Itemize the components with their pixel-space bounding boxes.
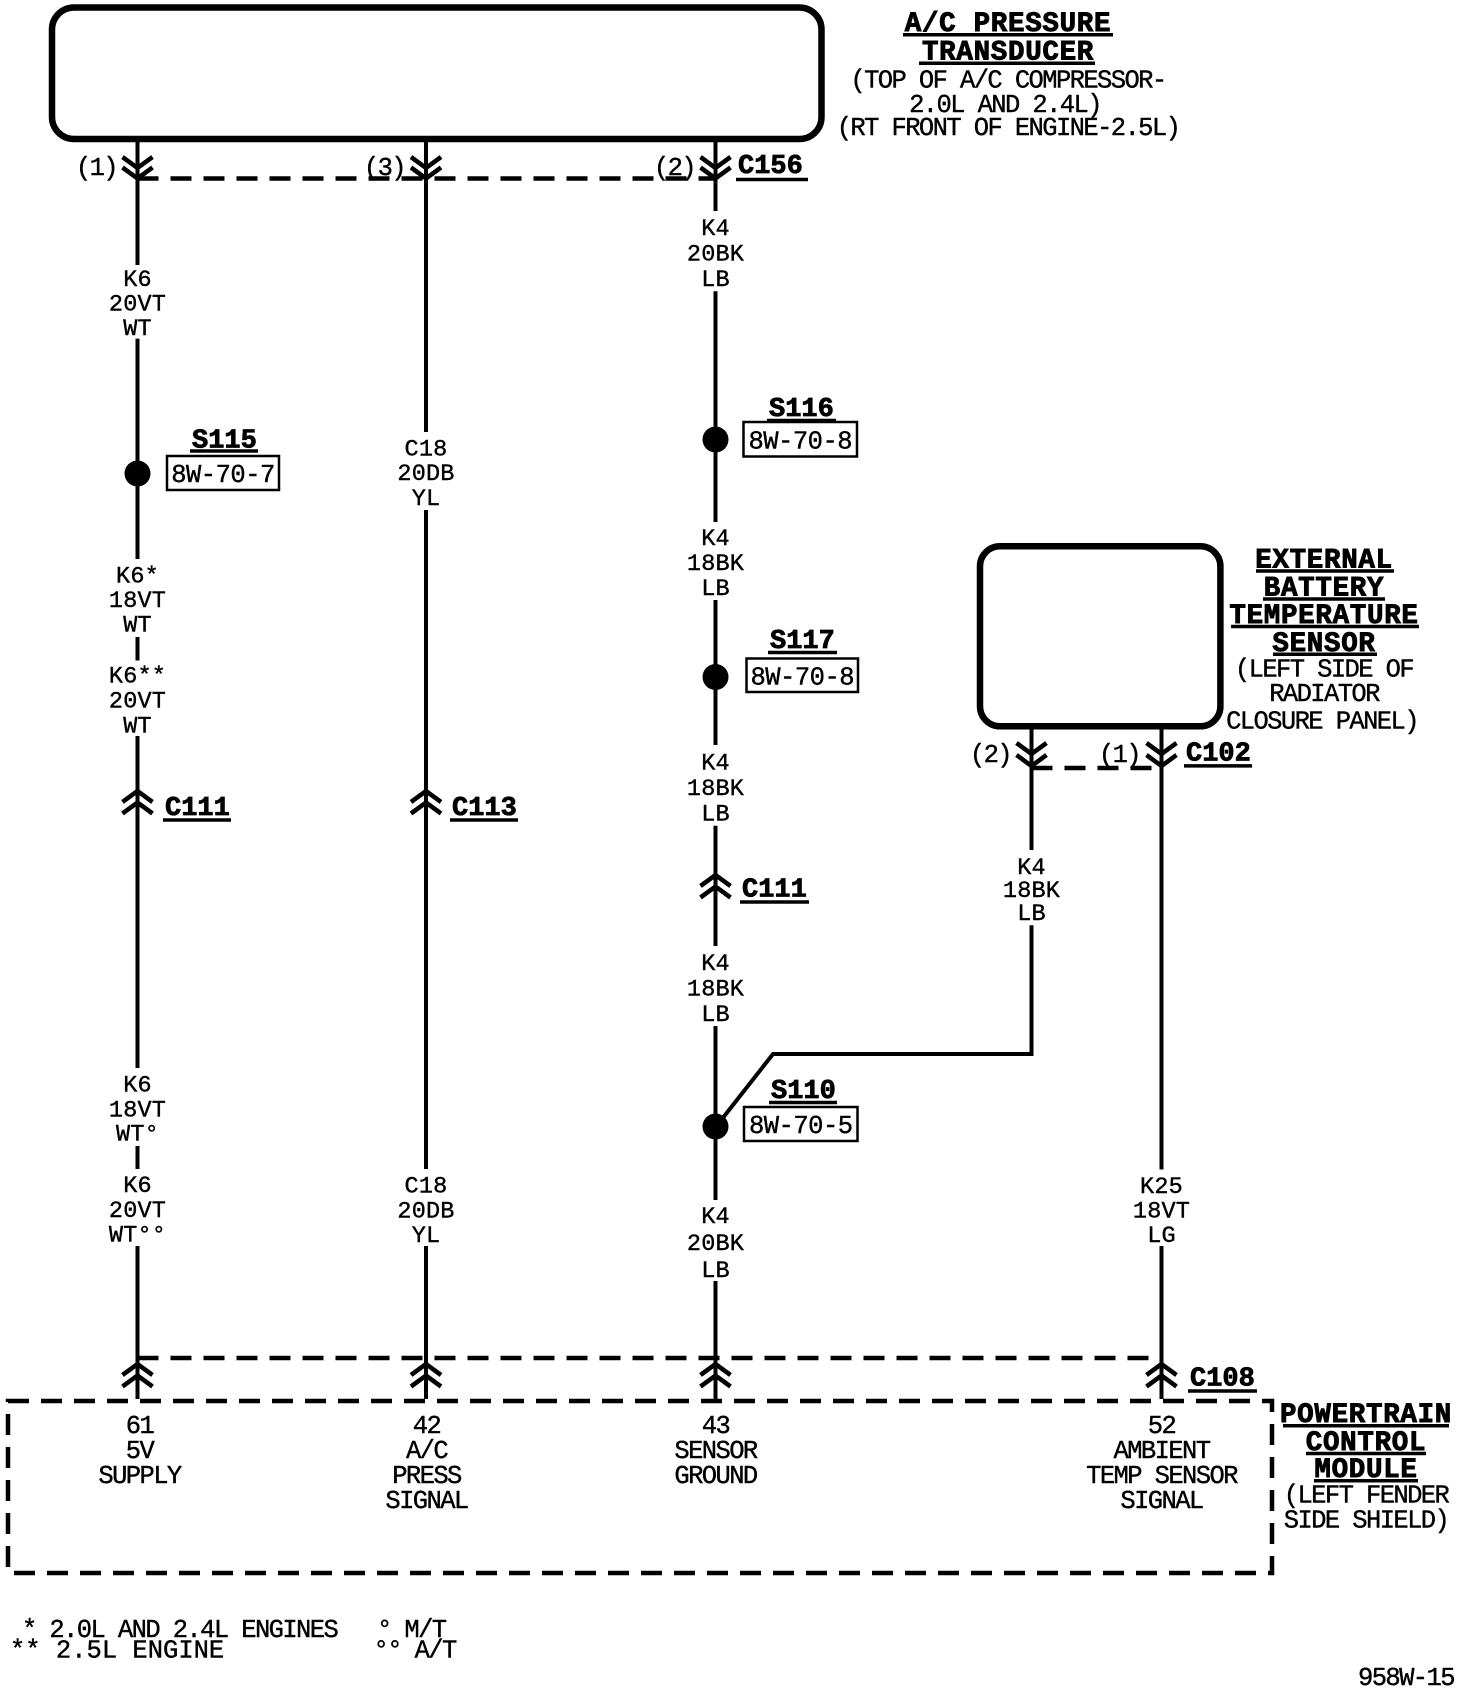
ref box 8W-70-7 [167,456,279,490]
svg-text:SUPPLY: SUPPLY [98,1462,182,1491]
wire to splice S110 branch [717,925,1032,1126]
svg-text:K4: K4 [701,1204,730,1231]
svg-text:20DB: 20DB [397,461,454,488]
splice S115 [125,461,151,487]
svg-text:20VT: 20VT [109,1198,166,1225]
svg-text:WT: WT [123,613,152,640]
svg-text:(2): (2) [970,741,1011,770]
svg-text:8W-70-8: 8W-70-8 [750,663,854,692]
wire K4 from battery pin 2 [1030,768,1034,850]
svg-text:SIGNAL: SIGNAL [385,1487,468,1516]
svg-text:20BK: 20BK [687,242,745,269]
wire K25 from battery pin 1 [1160,768,1164,1170]
svg-text:WT°: WT° [116,1122,159,1149]
svg-text:°° A/T: °° A/T [374,1637,458,1666]
svg-text:8W-70-8: 8W-70-8 [748,427,852,456]
wire [714,600,718,745]
svg-text:K4: K4 [701,216,730,243]
wire [424,510,428,1169]
svg-text:C156: C156 [738,152,803,182]
svg-text:RADIATOR: RADIATOR [1269,680,1380,709]
connector C102 dashed line [1032,766,1162,771]
wire [424,1246,428,1399]
wire [714,826,718,946]
svg-text:LB: LB [701,802,730,829]
splice S116 [703,427,729,453]
wire [714,1281,718,1399]
connector C111 (wire 3) [701,875,731,898]
connector pin at wire 4 (PCM 52) [1147,1364,1177,1387]
svg-text:C18: C18 [405,1173,448,1200]
svg-text:18VT: 18VT [109,588,166,615]
svg-text:8W-70-5: 8W-70-5 [749,1112,853,1141]
svg-text:18BK: 18BK [687,551,745,578]
connector C156 dashed line [138,176,716,181]
svg-text:GROUND: GROUND [674,1462,757,1491]
svg-text:SIGNAL: SIGNAL [1120,1487,1203,1516]
svg-text:K25: K25 [1140,1174,1183,1201]
svg-text:LB: LB [701,267,730,294]
svg-text:K4: K4 [701,751,730,778]
connector pin at wire 1 (PCM 61) [123,1364,153,1387]
svg-text:18VT: 18VT [109,1097,166,1124]
svg-text:(3): (3) [364,154,405,183]
svg-text:(RT FRONT OF ENGINE-2.5L): (RT FRONT OF ENGINE-2.5L) [837,114,1180,143]
wire [136,339,140,461]
component: powertrain control module dashed box [8,1401,1272,1573]
svg-text:20BK: 20BK [687,1231,745,1258]
splice S110 [703,1114,729,1140]
wire [136,486,140,559]
svg-text:20VT: 20VT [109,689,166,716]
svg-text:K4: K4 [701,526,730,553]
svg-text:WT°°: WT°° [109,1223,166,1250]
ref box 8W-70-5 [744,1107,858,1141]
wire [1160,1246,1164,1399]
wire [714,291,718,522]
splice S117 [703,664,729,690]
ref box 8W-70-8 (S116) [744,422,858,457]
svg-text:LB: LB [701,576,730,603]
svg-text:20DB: 20DB [397,1199,454,1226]
svg-text:20VT: 20VT [109,292,166,319]
wire [714,1026,718,1200]
svg-text:K4: K4 [701,951,730,978]
ref box 8W-70-8 (S117) [747,659,859,693]
svg-text:LB: LB [701,1002,730,1029]
connector pin at wire 3 (PCM 43) [701,1364,731,1387]
svg-text:LB: LB [1017,901,1046,928]
svg-text:8W-70-7: 8W-70-7 [171,461,275,490]
svg-text:K6: K6 [123,1073,152,1100]
wire [136,1246,140,1399]
wire [136,637,140,661]
svg-text:SIDE SHIELD): SIDE SHIELD) [1284,1507,1448,1536]
svg-text:K6: K6 [123,1173,152,1200]
svg-text:** 2.5L ENGINE: ** 2.5L ENGINE [10,1637,224,1666]
svg-text:18BK: 18BK [687,776,745,803]
component: A/C pressure transducer box [52,8,822,140]
wire [136,1146,140,1169]
svg-text:18VT: 18VT [1133,1198,1190,1225]
svg-text:18BK: 18BK [687,977,745,1004]
svg-text:K6**: K6** [109,664,166,691]
connector pin at wire 2 (PCM 42) [411,1364,441,1387]
wire K6 from pin 1 [136,141,140,179]
svg-text:YL: YL [412,1223,441,1250]
svg-text:K6: K6 [123,267,152,294]
svg-text:C18: C18 [405,436,448,463]
connector C108 dashed line [138,1356,1162,1361]
wire [136,736,140,1068]
connector C113 [411,791,441,814]
svg-text:(2): (2) [654,154,695,183]
svg-text:(1): (1) [76,154,117,183]
connector C111 (left) [123,791,153,814]
component: external battery temperature sensor box [980,546,1220,726]
svg-text:K6*: K6* [116,564,159,591]
svg-text:YL: YL [412,486,441,513]
wire K4 from pin 2 [714,141,718,211]
svg-text:(1): (1) [1099,741,1140,770]
svg-text:CLOSURE PANEL): CLOSURE PANEL) [1226,708,1418,737]
wire C18 from pin 3 [424,141,428,432]
svg-text:958W-15: 958W-15 [1358,1664,1454,1690]
